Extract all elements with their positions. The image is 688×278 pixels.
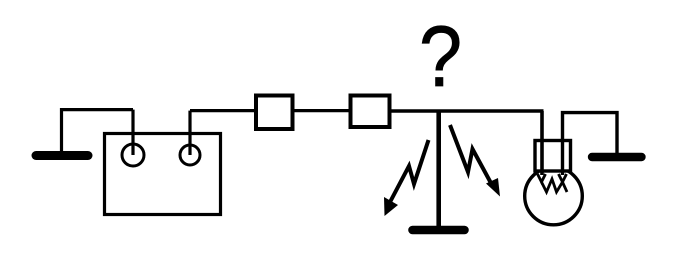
wire (junction down to middle ground) bbox=[436, 111, 441, 226]
wire (lamp left lead) bbox=[540, 111, 544, 175]
arrow (right lightning bolt) bbox=[450, 125, 492, 185]
arrowhead (right bolt tip) bbox=[486, 178, 500, 197]
ground GND1 (left) bbox=[36, 151, 88, 160]
terminal (battery right post) bbox=[180, 145, 200, 165]
battery BT1 bbox=[105, 134, 221, 215]
ground GND2 (middle) bbox=[413, 226, 465, 235]
wire (left ground riser to top wire) bbox=[62, 110, 134, 151]
box U2 (series element 2) bbox=[351, 96, 390, 128]
arrowhead (left bolt tip) bbox=[384, 197, 398, 216]
filament (zigzag inside lamp) bbox=[542, 179, 568, 192]
wire (left battery terminal lead) bbox=[131, 110, 134, 155]
wire (battery to box 1) bbox=[190, 109, 256, 112]
wire (lamp right lead up and over to right ground) bbox=[563, 113, 618, 175]
svg-text:?: ? bbox=[419, 9, 462, 105]
wire (box 1 to box 2) bbox=[293, 109, 351, 112]
filament support hook (left) bbox=[538, 174, 546, 182]
terminal (battery left post) bbox=[122, 144, 144, 166]
wire (box 2 to junction to bulb) bbox=[390, 109, 544, 112]
ground GND3 (right) bbox=[592, 153, 642, 161]
filament support hook (right) bbox=[559, 174, 567, 182]
box U1 (series element 1) bbox=[256, 96, 293, 130]
lamp base (screw cap) bbox=[535, 141, 571, 172]
wire (right battery terminal lead) bbox=[188, 111, 191, 155]
lamp DS1 globe bbox=[525, 167, 583, 225]
arrow (left lightning bolt) bbox=[389, 140, 429, 204]
